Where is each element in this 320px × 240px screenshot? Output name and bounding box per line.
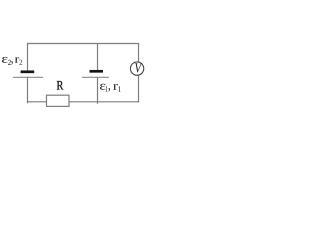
- voltmeter V1 letter V: [135, 63, 142, 72]
- label E1 comma: [108, 88, 110, 91]
- wire bottom right: [69, 101, 139, 103]
- wire middle upper: [97, 44, 99, 72]
- battery cell E2 thin plate: [13, 76, 43, 78]
- resistor R body: [47, 95, 70, 106]
- wire left upper: [27, 44, 29, 72]
- wire bottom left: [27, 101, 47, 103]
- battery cell E1 thick plate: [90, 70, 104, 73]
- wire left lower: [27, 77, 29, 103]
- label r2 subscript 2: [19, 60, 22, 65]
- wire middle lower: [97, 77, 99, 104]
- wire right upper: [138, 44, 140, 63]
- battery cell E1 thin plate: [82, 76, 109, 78]
- label E2 epsilon: [2, 57, 8, 63]
- battery cell E2 thick plate: [21, 70, 35, 73]
- wire top: [27, 43, 139, 45]
- label E2 comma: [11, 61, 13, 64]
- label E1 epsilon: [100, 84, 105, 90]
- wire right lower: [138, 75, 140, 102]
- label E2 subscript 2: [8, 60, 11, 65]
- label E1 subscript 1: [106, 86, 108, 92]
- label r1 subscript 1: [118, 86, 121, 92]
- label r2 letter r: [15, 57, 19, 63]
- label R: [57, 81, 64, 90]
- label r1 letter r: [113, 84, 118, 90]
- voltmeter V1 body: [130, 62, 143, 75]
